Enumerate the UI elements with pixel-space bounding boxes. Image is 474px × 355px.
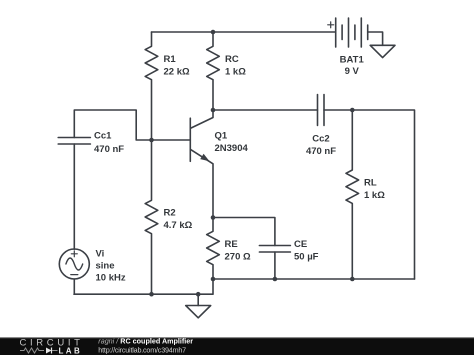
logo CircuitLab	[20, 337, 84, 355]
label CE	[294, 239, 319, 263]
wire top rail	[152, 31, 336, 33]
battery BAT1	[328, 18, 368, 47]
svg-text:2N3904: 2N3904	[215, 143, 249, 154]
capacitor Cc2	[318, 95, 325, 126]
label RC	[225, 54, 246, 78]
svg-text:R1: R1	[164, 54, 177, 65]
svg-text:RC: RC	[225, 54, 239, 65]
node CE bottom	[273, 277, 278, 282]
capacitor CE	[259, 246, 290, 253]
svg-text:Cc1: Cc1	[94, 131, 112, 142]
svg-text:Vi: Vi	[96, 249, 105, 260]
ground top right	[370, 45, 395, 57]
node RL bottom	[350, 277, 355, 282]
svg-text:Q1: Q1	[215, 131, 228, 142]
wire Cc1 top branch	[74, 110, 190, 140]
node Cc2 RL junction	[350, 108, 355, 113]
svg-text:sine: sine	[96, 261, 115, 272]
svg-text:LAB: LAB	[59, 347, 83, 355]
svg-text:Cc2: Cc2	[312, 134, 329, 145]
resistor RE	[207, 218, 220, 280]
svg-text:CE: CE	[294, 239, 307, 250]
svg-text:RE: RE	[225, 239, 238, 250]
node top RC junction	[211, 30, 216, 35]
node R2 bottom	[149, 292, 154, 297]
svg-text:50 µF: 50 µF	[294, 252, 319, 263]
resistor R1	[145, 32, 158, 140]
wire emitter to CE	[213, 218, 275, 246]
footer bar	[0, 337, 474, 355]
label Q1	[215, 131, 249, 155]
node RE bottom	[211, 277, 216, 282]
svg-text:BAT1: BAT1	[340, 55, 365, 66]
wire collector rail	[213, 109, 318, 111]
node ground tap	[196, 292, 201, 297]
wire RE bottom to ground rail	[74, 279, 213, 294]
resistor R2	[145, 140, 158, 294]
label Vi	[96, 249, 126, 284]
wire CE bottom	[274, 252, 276, 279]
label R2	[164, 208, 193, 232]
svg-text:4.7 kΩ: 4.7 kΩ	[164, 220, 193, 231]
label RL	[364, 178, 385, 202]
node emitter junction	[211, 215, 216, 220]
node collector junction	[211, 108, 216, 113]
resistor RL	[346, 110, 359, 279]
svg-text:470 nF: 470 nF	[306, 146, 336, 157]
svg-text:10 kHz: 10 kHz	[96, 273, 126, 284]
footer title text	[98, 336, 193, 354]
svg-text:1 kΩ: 1 kΩ	[225, 67, 246, 78]
label R1	[164, 54, 190, 78]
wire bottom right rail	[213, 278, 415, 280]
svg-text:R2: R2	[164, 208, 176, 219]
label Cc1	[94, 131, 124, 156]
svg-text:ragni / RC coupled Amplifier: ragni / RC coupled Amplifier	[98, 336, 193, 345]
label BAT1	[340, 55, 365, 77]
ground bottom	[186, 294, 211, 318]
transistor Q1	[190, 110, 213, 218]
wire battery to ground	[368, 32, 383, 45]
svg-text:22 kΩ: 22 kΩ	[164, 67, 190, 78]
label Cc2	[306, 134, 336, 158]
wire Cc2 to right rail	[324, 110, 415, 279]
source Vi	[59, 144, 89, 294]
node base junction	[149, 138, 154, 143]
svg-text:http://circuitlab.com/c394mh7: http://circuitlab.com/c394mh7	[98, 345, 186, 354]
resistor RC	[207, 32, 220, 110]
svg-text:270 Ω: 270 Ω	[225, 251, 251, 262]
label RE	[225, 239, 251, 262]
svg-text:1 kΩ: 1 kΩ	[364, 190, 385, 201]
capacitor Cc1	[58, 138, 90, 145]
svg-text:RL: RL	[364, 178, 377, 189]
svg-text:9 V: 9 V	[345, 66, 360, 77]
svg-text:470 nF: 470 nF	[94, 144, 124, 155]
